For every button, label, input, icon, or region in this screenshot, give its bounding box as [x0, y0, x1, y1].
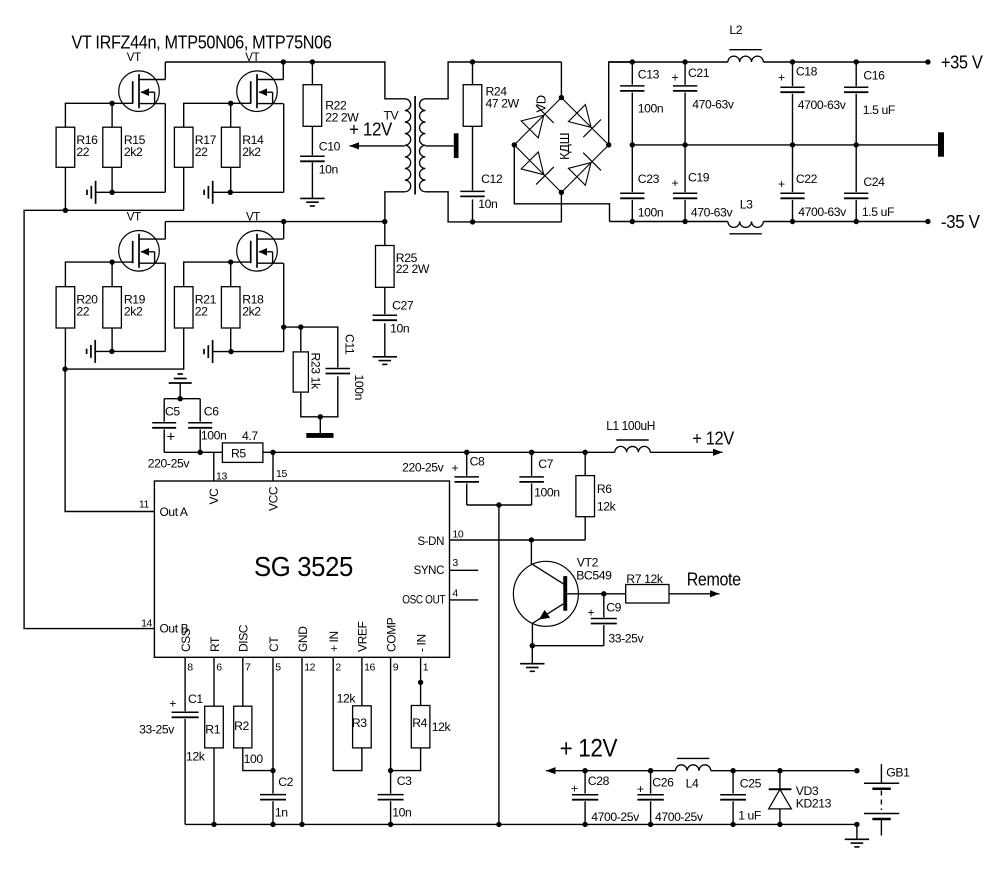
wire — [856, 824, 858, 839]
node — [63, 208, 68, 213]
wire — [96, 191, 166, 193]
svg-text:C3: C3 — [397, 774, 412, 788]
wire — [263, 451, 615, 453]
svg-text:BC549: BC549 — [576, 569, 612, 583]
wire — [111, 262, 113, 287]
svg-text:C9: C9 — [606, 601, 621, 615]
wire — [560, 62, 562, 98]
svg-text:22: 22 — [195, 305, 208, 319]
node — [470, 59, 475, 64]
svg-text:100: 100 — [244, 752, 264, 766]
svg-text:C28: C28 — [588, 774, 610, 788]
svg-text:+ IN: + IN — [327, 631, 341, 652]
svg-text:12k: 12k — [186, 750, 206, 764]
svg-text:100n: 100n — [638, 206, 664, 220]
wire — [184, 262, 251, 287]
svg-text:6: 6 — [216, 662, 222, 674]
node — [178, 396, 183, 401]
svg-text:22: 22 — [76, 305, 89, 319]
node — [270, 768, 275, 773]
svg-text:C24: C24 — [863, 175, 885, 189]
capacitor C24 — [855, 145, 857, 192]
node — [730, 768, 735, 773]
svg-text:C2: C2 — [278, 775, 293, 789]
svg-text:22: 22 — [76, 145, 89, 159]
svg-text:8: 8 — [187, 662, 193, 674]
chassis bar (secondary center tap) — [425, 145, 453, 147]
wire — [609, 61, 728, 63]
node gate1a — [109, 101, 114, 106]
svg-text:KD213: KD213 — [796, 797, 832, 811]
svg-text:1.5 uF: 1.5 uF — [862, 205, 894, 219]
svg-text:11: 11 — [139, 499, 150, 511]
wire — [164, 451, 222, 453]
wire — [165, 62, 404, 99]
wire — [272, 452, 274, 481]
node — [630, 219, 635, 224]
resistor R6 — [584, 452, 586, 475]
svg-text:1: 1 — [423, 662, 429, 674]
svg-text:100n: 100n — [352, 375, 366, 401]
wire — [184, 719, 186, 825]
svg-text:L1 100uH: L1 100uH — [606, 418, 655, 433]
wire — [514, 145, 609, 222]
svg-text:C11: C11 — [343, 334, 357, 355]
wire — [385, 192, 405, 222]
svg-text:SG 3525: SG 3525 — [254, 551, 353, 582]
svg-text:VT2: VT2 — [577, 556, 599, 570]
svg-text:+: + — [778, 71, 785, 85]
svg-text:+: + — [672, 71, 679, 85]
wire — [609, 62, 633, 145]
svg-text:VT: VT — [127, 212, 141, 224]
node — [228, 190, 233, 195]
wire — [650, 451, 722, 453]
node — [228, 349, 233, 354]
node — [630, 142, 635, 147]
svg-text:C18: C18 — [796, 65, 818, 79]
wire — [763, 221, 928, 223]
svg-text:2k2: 2k2 — [242, 305, 261, 319]
ground — [300, 197, 324, 199]
svg-text:C5: C5 — [165, 405, 180, 419]
wire — [498, 505, 500, 824]
wire — [333, 657, 362, 770]
svg-text:33-25v: 33-25v — [608, 632, 644, 646]
wire — [632, 144, 938, 146]
svg-text:C21: C21 — [688, 66, 710, 80]
svg-text:C26: C26 — [652, 776, 674, 790]
diode (top-right) — [568, 105, 591, 128]
svg-text:12: 12 — [304, 662, 315, 674]
svg-text:2k2: 2k2 — [242, 145, 261, 159]
op-amp U1 SG 3525 — [154, 481, 449, 657]
svg-text:470-63v: 470-63v — [692, 98, 735, 112]
svg-text:C25: C25 — [740, 777, 762, 791]
svg-text:10n: 10n — [319, 163, 338, 177]
resistor R17 — [174, 127, 193, 167]
svg-text:GND: GND — [296, 626, 310, 652]
wire — [243, 748, 273, 771]
svg-text:R1: R1 — [205, 723, 220, 737]
svg-text:1.5 uF: 1.5 uF — [863, 103, 895, 117]
svg-text:C19: C19 — [688, 171, 710, 185]
wire — [95, 350, 165, 352]
ground (above C5/C6) — [169, 382, 192, 384]
svg-text:S-DN: S-DN — [417, 536, 444, 548]
node gate1b — [228, 101, 233, 106]
svg-text:+: + — [672, 176, 679, 190]
wire — [283, 263, 285, 351]
diode (bottom-left) — [521, 152, 544, 175]
wire — [472, 199, 474, 222]
svg-text:C12: C12 — [481, 172, 503, 186]
node — [418, 680, 423, 685]
svg-text:RT: RT — [208, 636, 222, 652]
svg-text:L4: L4 — [686, 777, 699, 791]
svg-text:+35 V: +35 V — [941, 52, 984, 73]
svg-text:2: 2 — [335, 662, 341, 674]
svg-text:+: + — [637, 782, 644, 796]
wire — [65, 328, 184, 512]
svg-text:C1: C1 — [188, 692, 203, 706]
resistor R1 — [213, 657, 215, 706]
svg-text:COMP: COMP — [384, 617, 398, 652]
svg-text:220-25v: 220-25v — [402, 461, 445, 475]
ground — [373, 356, 397, 358]
wire — [425, 62, 561, 99]
node — [601, 591, 606, 596]
resistor R3 — [361, 657, 363, 706]
svg-text:R4: R4 — [412, 716, 427, 730]
svg-text:VC: VC — [207, 488, 221, 505]
resistor R21 — [174, 287, 193, 328]
node — [790, 59, 795, 64]
svg-text:10: 10 — [452, 529, 463, 541]
wire — [230, 262, 232, 287]
svg-text:+: + — [571, 782, 578, 796]
wire — [111, 328, 113, 351]
node — [496, 502, 501, 507]
inductor L4 — [675, 765, 710, 771]
node — [530, 643, 535, 648]
svg-text:7: 7 — [245, 662, 251, 674]
svg-text:+ 12V: + 12V — [692, 429, 734, 449]
svg-text:+: + — [778, 177, 785, 191]
node — [211, 822, 216, 827]
core — [414, 96, 416, 195]
svg-text:DISC: DISC — [237, 624, 251, 652]
svg-text:R23 1k: R23 1k — [309, 353, 323, 391]
node — [310, 59, 315, 64]
wire — [282, 62, 284, 80]
diode (top-left) — [521, 115, 544, 138]
svg-text:R3: R3 — [352, 716, 367, 730]
svg-text:L3: L3 — [740, 198, 753, 212]
svg-text:+: + — [588, 606, 595, 620]
svg-text:10n: 10n — [390, 322, 409, 336]
svg-text:12k: 12k — [597, 500, 617, 514]
wire — [213, 191, 284, 193]
wire — [311, 162, 313, 198]
ground bar — [306, 433, 333, 438]
svg-text:C10: C10 — [319, 140, 341, 154]
svg-text:10n: 10n — [392, 806, 411, 820]
wire — [711, 770, 857, 772]
ground (row1 left) — [95, 181, 97, 204]
svg-text:1 uF: 1 uF — [738, 809, 761, 823]
wire — [64, 167, 66, 210]
svg-text:C13: C13 — [638, 68, 660, 82]
node — [318, 414, 323, 419]
wire — [301, 657, 303, 824]
svg-text:33-25v: 33-25v — [139, 723, 175, 737]
ground (VT2) — [520, 663, 544, 665]
node — [270, 450, 275, 455]
resistor R16 — [56, 127, 75, 167]
svg-text:4.7: 4.7 — [242, 429, 258, 443]
wire — [531, 623, 533, 646]
node — [109, 349, 114, 354]
wire — [111, 167, 113, 192]
svg-text:VT IRFZ44n, MTP50N06, MTP75N06: VT IRFZ44n, MTP50N06, MTP75N06 — [72, 32, 332, 53]
wire — [763, 61, 928, 63]
svg-text:4700-63v: 4700-63v — [798, 98, 847, 112]
svg-text:C27: C27 — [392, 299, 414, 313]
wire — [531, 646, 533, 664]
svg-text:12k: 12k — [432, 720, 452, 734]
node — [790, 219, 795, 224]
diode VD3 KD213 — [779, 771, 781, 790]
node — [298, 324, 303, 329]
svg-text:C8: C8 — [470, 455, 485, 469]
svg-text:100n: 100n — [638, 102, 664, 116]
node — [62, 366, 67, 371]
svg-text:-35 V: -35 V — [941, 211, 981, 232]
svg-text:9: 9 — [393, 662, 399, 674]
svg-text:КДШ: КДШ — [557, 133, 572, 160]
node — [464, 450, 469, 455]
wire — [472, 126, 474, 190]
svg-text:GB1: GB1 — [886, 766, 910, 780]
wire — [384, 323, 386, 357]
svg-text:Remote: Remote — [687, 570, 741, 590]
svg-text:4700-25v: 4700-25v — [591, 810, 640, 824]
svg-text:2k2: 2k2 — [124, 305, 143, 319]
node — [281, 59, 286, 64]
ground (row2 right) — [212, 340, 214, 363]
wire — [584, 517, 586, 540]
svg-text:14: 14 — [141, 618, 152, 630]
svg-text:5: 5 — [275, 662, 281, 674]
svg-text:CT: CT — [267, 636, 281, 652]
resistor R23 — [293, 352, 308, 392]
svg-text:C22: C22 — [796, 172, 818, 186]
svg-text:VREF: VREF — [356, 622, 370, 652]
resistor R15 — [103, 127, 122, 167]
wire — [164, 62, 166, 80]
ground (output) — [845, 838, 869, 840]
svg-text:15: 15 — [276, 468, 287, 480]
wire — [284, 326, 301, 328]
svg-text:L2: L2 — [729, 23, 742, 37]
ground (row1 right) — [212, 181, 214, 204]
svg-text:CSS: CSS — [179, 628, 193, 652]
wire — [164, 398, 200, 400]
node — [470, 219, 475, 224]
resistor R25 — [384, 222, 386, 246]
wire — [164, 222, 166, 240]
svg-text:C16: C16 — [863, 69, 885, 83]
wire — [300, 327, 302, 352]
wire — [532, 645, 604, 647]
wire — [65, 262, 132, 287]
node — [382, 219, 387, 224]
node — [388, 768, 393, 773]
svg-text:C23: C23 — [638, 172, 660, 186]
chassis bar (0V) — [938, 132, 944, 156]
svg-text:R2: R2 — [234, 719, 249, 733]
wire — [165, 221, 384, 223]
wire — [425, 192, 561, 222]
svg-text:2k2: 2k2 — [124, 145, 143, 159]
svg-text:C6: C6 — [204, 405, 219, 419]
svg-text:3: 3 — [452, 557, 458, 569]
wire — [301, 327, 338, 367]
wire — [213, 748, 215, 825]
node — [198, 450, 203, 455]
wire — [420, 657, 422, 705]
wire — [283, 104, 285, 193]
capacitor C13 — [631, 62, 633, 85]
svg-text:OSC OUT: OSC OUT — [402, 595, 445, 607]
wire — [390, 801, 392, 824]
wire — [64, 328, 66, 369]
resistor R18 — [221, 287, 240, 328]
wire — [24, 210, 184, 628]
capacitor C18 — [792, 62, 794, 86]
wire — [283, 222, 285, 240]
resistor R20 — [56, 287, 75, 328]
wire — [272, 657, 274, 793]
svg-text:Out A: Out A — [160, 505, 188, 519]
wire — [391, 748, 421, 771]
svg-text:VCC: VCC — [267, 486, 281, 511]
node — [559, 95, 564, 100]
svg-text:R6: R6 — [597, 482, 612, 496]
capacitor C21 — [684, 62, 686, 85]
node — [582, 768, 587, 773]
wire — [164, 104, 166, 193]
node — [109, 259, 114, 264]
svg-text:13: 13 — [216, 471, 227, 483]
wire — [230, 167, 232, 192]
svg-text:R5: R5 — [231, 447, 246, 461]
wire — [213, 452, 215, 481]
svg-text:+: + — [169, 697, 176, 711]
svg-text:4700-25v: 4700-25v — [655, 810, 704, 824]
wire — [179, 383, 181, 399]
wire — [319, 417, 321, 433]
wire — [610, 221, 728, 223]
svg-text:470-63v: 470-63v — [691, 206, 734, 220]
capacitor C11 — [326, 368, 351, 370]
svg-text:100n: 100n — [201, 429, 227, 443]
svg-text:- IN: - IN — [414, 634, 428, 652]
svg-text:+ 12V: + 12V — [560, 735, 618, 763]
resistor R24 — [472, 62, 474, 85]
wire — [301, 376, 338, 417]
wire — [384, 287, 386, 314]
svg-text:+: + — [167, 429, 176, 446]
svg-text:4: 4 — [452, 588, 458, 600]
node — [281, 324, 286, 329]
wire — [183, 167, 185, 210]
node — [109, 190, 114, 195]
capacitor C23 — [631, 145, 633, 192]
resistor R14 — [221, 127, 240, 167]
wire — [669, 593, 720, 595]
wire — [230, 103, 232, 127]
svg-text:16: 16 — [364, 662, 375, 674]
resistor R4 — [411, 706, 430, 748]
wire — [213, 351, 284, 353]
resistor R19 — [103, 287, 122, 328]
node — [630, 59, 635, 64]
wire — [272, 801, 274, 824]
wire — [65, 103, 132, 127]
svg-text:220-25v: 220-25v — [148, 457, 191, 471]
svg-text:22 2W: 22 2W — [396, 262, 430, 276]
resistor R2 — [242, 657, 244, 706]
wire — [230, 328, 232, 352]
svg-text:1n: 1n — [275, 806, 288, 820]
svg-text:4700-63v: 4700-63v — [798, 205, 847, 219]
svg-text:C7: C7 — [538, 457, 553, 471]
capacitor C16 — [855, 62, 857, 86]
svg-text:+ 12V: + 12V — [349, 120, 392, 140]
wire — [467, 504, 532, 506]
wire — [184, 103, 251, 127]
wire — [560, 192, 562, 222]
svg-text:12k: 12k — [337, 692, 357, 706]
svg-text:VT: VT — [127, 52, 141, 64]
svg-text:SYNC: SYNC — [414, 565, 444, 577]
wire — [390, 657, 392, 793]
svg-text:100n: 100n — [534, 486, 560, 500]
capacitor C1 — [184, 657, 186, 711]
svg-text:10n: 10n — [478, 197, 497, 211]
wire — [546, 770, 675, 772]
svg-text:47 2W: 47 2W — [486, 97, 520, 111]
wire — [111, 103, 113, 127]
svg-text:+: + — [452, 461, 459, 475]
resistor R22 — [311, 62, 313, 85]
node — [281, 219, 286, 224]
capacitor C22 — [792, 145, 794, 192]
wire — [185, 823, 857, 825]
wire — [311, 126, 313, 155]
wire — [164, 263, 166, 351]
ground (row2 left) — [94, 340, 96, 363]
diode (bottom-right) — [568, 163, 591, 186]
capacitor C19 — [684, 145, 686, 192]
svg-text:22: 22 — [195, 145, 208, 159]
node — [529, 537, 534, 542]
node — [228, 259, 233, 264]
